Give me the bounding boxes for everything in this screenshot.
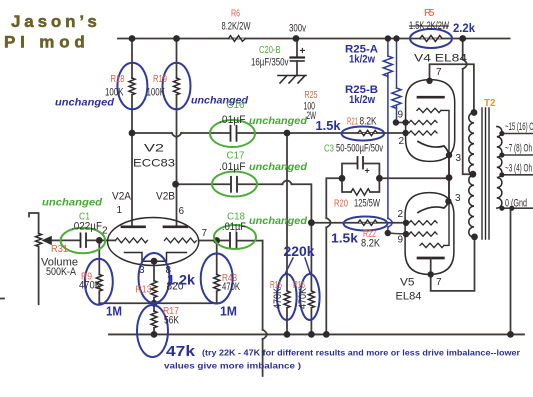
node C3-R20 right [376, 175, 383, 182]
V4 g2 screen grid [409, 120, 437, 124]
svg-text:~7 (8) Oh: ~7 (8) Oh [505, 143, 532, 155]
node 300v [293, 35, 300, 42]
resistor R43 470K->1M [216, 241, 218, 275]
junction rail-primary-feed [459, 35, 466, 42]
svg-text:unchanged: unchanged [55, 98, 115, 109]
V2B cathode [154, 253, 187, 262]
svg-text:R18: R18 [111, 73, 125, 85]
svg-text:V2A: V2A [112, 191, 132, 203]
wire cathodes to R13 [153, 261, 155, 281]
wire V4 cathode out [448, 155, 450, 178]
junction rail-R25B [393, 35, 399, 41]
wire C16 row [132, 132, 172, 134]
junction R16-ground-bus [308, 331, 315, 338]
resistor R18 100K [129, 78, 135, 95]
wiper arrow [50, 239, 80, 241]
svg-text:3: 3 [139, 265, 145, 276]
resistor R9 470K->1M [98, 240, 100, 274]
svg-text:300v: 300v [289, 23, 306, 35]
svg-text:9: 9 [398, 110, 404, 121]
svg-text:1M: 1M [106, 305, 122, 319]
resistor R21 8.2K (1.5k) [358, 130, 377, 135]
junction V2A-plate-C16 [129, 130, 136, 137]
svg-text:500K-A: 500K-A [46, 266, 77, 278]
svg-text:V5: V5 [400, 277, 415, 289]
V2B grid [165, 238, 197, 243]
node tap 7 ohm [499, 152, 504, 157]
svg-text:1.5k: 1.5k [331, 232, 358, 246]
svg-text:1: 1 [117, 205, 123, 216]
V2A plate [122, 225, 145, 228]
svg-text:.01µF: .01µF [219, 114, 246, 126]
highlight ellipse R5 [410, 29, 452, 48]
capacitor C20-B 16uF/350v [296, 39, 298, 57]
node R25A-end [385, 230, 391, 236]
wire second column x=176.5 (rail to V2B plate) [176, 39, 178, 79]
svg-text:EL84: EL84 [396, 291, 422, 303]
junction V2B-plate-C17 [172, 181, 179, 188]
svg-text:50-500µF/50v: 50-500µF/50v [336, 143, 383, 155]
svg-text:C16: C16 [227, 99, 245, 111]
svg-text:+: + [365, 166, 370, 176]
wire left column x=132 (rail to V2A plate) [131, 39, 133, 79]
resistor R22 8.2K (1.5k) [358, 220, 377, 225]
resistor R13 820 (1.2k) [151, 281, 157, 298]
svg-text:470K: 470K [79, 280, 102, 292]
V4 g3 grid [417, 108, 441, 112]
node T2 primary bottom [471, 234, 478, 241]
highlight ellipse R16 [300, 274, 320, 320]
svg-text:unchanged: unchanged [249, 162, 308, 173]
svg-text:2: 2 [102, 226, 108, 237]
resistor R16 470K->220k [308, 291, 314, 308]
highlight ellipse C17 [212, 172, 257, 197]
svg-text:0 (Gnd: 0 (Gnd [505, 198, 527, 210]
junction rail-R25A [385, 35, 391, 41]
wire V5 plate to T2 primary bottom [431, 237, 475, 291]
wire box right node to cathode line [379, 177, 449, 179]
node dots [96, 35, 514, 338]
wire R22 row to V5 g1 [311, 222, 406, 224]
svg-text:R31: R31 [51, 243, 68, 255]
node tap 0 gnd [499, 206, 504, 211]
highlight ellipse R43 [201, 254, 233, 304]
highlight ellipse R13 [139, 253, 170, 303]
V5 plate [418, 257, 443, 260]
svg-text:unchanged: unchanged [42, 198, 103, 209]
svg-text:R25: R25 [305, 89, 318, 101]
junction gnd-tap-ground-bus [507, 331, 514, 338]
wire cathode junction to V5 [448, 178, 450, 202]
svg-text:V2B: V2B [156, 191, 175, 203]
svg-text:V2: V2 [144, 143, 164, 155]
ground (C20-B) [278, 76, 306, 84]
svg-text:470K: 470K [297, 287, 309, 309]
junction R13-R17-1M [151, 300, 158, 307]
junction C3-drop-ground-bus [323, 331, 330, 338]
svg-text:7: 7 [436, 277, 442, 288]
node C3-R20 left [339, 175, 346, 182]
svg-text:125/5W: 125/5W [354, 198, 380, 210]
svg-text:1M: 1M [220, 305, 237, 319]
volume pot R31 500K-A [29, 213, 39, 234]
svg-text:values give more imbalance ): values give more imbalance ) [164, 361, 301, 371]
wire x=287 column down to R15 [286, 133, 288, 290]
svg-text:8.2K: 8.2K [361, 238, 381, 250]
svg-text:unchanged: unchanged [249, 116, 308, 127]
highlight ellipse R15 [277, 274, 297, 320]
junction rail-R19 [173, 35, 180, 42]
highlight ellipse R22 [344, 217, 388, 231]
highlight ellipse C16 [210, 120, 255, 147]
svg-text:V4 EL84: V4 EL84 [414, 53, 467, 65]
svg-text:16µF/350v: 16µF/350v [251, 57, 289, 69]
V2B plate [164, 225, 187, 228]
tube V4 envelope [406, 80, 455, 162]
pin 3 V5 envelope [445, 198, 451, 204]
svg-text:47k: 47k [166, 343, 196, 360]
svg-text:3: 3 [455, 193, 461, 204]
svg-text:C20-B: C20-B [259, 44, 281, 56]
junction R15-ground-bus [284, 331, 291, 338]
pin 2 V4 envelope [402, 130, 408, 136]
svg-text:6: 6 [179, 206, 185, 217]
svg-text:PI mod: PI mod [4, 33, 87, 52]
pin 2 V5 envelope [403, 220, 409, 226]
svg-text:56K: 56K [164, 315, 180, 327]
svg-text:1k/2w: 1k/2w [349, 94, 375, 106]
svg-text:ECC83: ECC83 [133, 158, 175, 170]
svg-text:T2: T2 [484, 97, 496, 109]
junction C16-R15 [284, 130, 291, 137]
wire hop (over x=287) [282, 181, 292, 185]
svg-text:2: 2 [398, 209, 404, 220]
svg-text:1k/2w: 1k/2w [349, 54, 375, 66]
V2A grid [115, 238, 147, 243]
wire 1M bus [99, 302, 216, 304]
highlight ellipse R21 [342, 127, 385, 141]
V4 g1 grid [409, 131, 437, 135]
wire secondary tap 0 gnd [502, 207, 533, 209]
capacitor C18 .01uF [229, 233, 231, 248]
pin 3 V4 envelope [446, 152, 452, 158]
resistor R19 100K [174, 78, 180, 95]
highlight ellipse R18 [117, 63, 147, 110]
resistor R5 (in rail, 1.5K->2.2k) [420, 36, 442, 42]
svg-text:unchanged: unchanged [249, 216, 308, 227]
title Jason's PI mod [4, 12, 99, 52]
wire C1 to V2A grid [87, 239, 115, 241]
V4 plate [418, 96, 443, 99]
capacitor C16 .01uF [230, 126, 232, 141]
junction C17-R16-R22 [308, 219, 315, 226]
wire box left node down to ground bus (hop over R22 wire) [326, 178, 342, 218]
node T2 primary top [471, 109, 478, 116]
svg-text:R13: R13 [136, 284, 152, 296]
resistor R25-B 1k/2w (blue) [396, 39, 398, 89]
svg-text:3: 3 [456, 153, 462, 164]
svg-text:R6: R6 [231, 8, 240, 20]
svg-text:8.2K/2W: 8.2K/2W [222, 21, 251, 33]
V5 g3 grid [420, 243, 444, 247]
highlight ellipse C1 [61, 228, 106, 253]
svg-text:.022µF: .022µF [71, 221, 102, 233]
V5 cathode [418, 201, 448, 212]
pin 9 V4 envelope [402, 119, 408, 125]
resistor R20 125/5W [351, 189, 370, 195]
wire hop (dip under x=176.5) [172, 133, 182, 137]
junction C1-R9-grid [96, 237, 103, 244]
pin 7 V5 envelope [428, 271, 434, 277]
capacitor C1 .022uF [80, 233, 82, 247]
svg-text:9: 9 [398, 235, 404, 246]
svg-text:(try 22K - 47K for different r: (try 22K - 47K for different results and… [202, 348, 521, 358]
wire C16 node to R21 and V4 g1 [287, 132, 406, 134]
resistor R25-A 1k/2w (blue) [387, 39, 389, 57]
node tap 3 ohm [499, 172, 504, 177]
svg-text:C17: C17 [227, 150, 245, 162]
junction grid-R43-C18 [213, 237, 220, 244]
svg-text:R19: R19 [153, 73, 167, 85]
wire secondary tap 3 ohm [502, 174, 533, 176]
junction cathode-bias [446, 174, 453, 181]
svg-text:1.5k: 1.5k [316, 119, 341, 133]
svg-text:8.2K: 8.2K [360, 116, 377, 128]
svg-text:Jason’s: Jason’s [11, 12, 99, 31]
resistor R17 56K (47k) [151, 311, 157, 328]
junction rail-R18 [129, 35, 136, 42]
highlight ellipse R17 [137, 305, 168, 357]
node R25B-end [393, 119, 399, 125]
highlight ellipse R9 [85, 259, 113, 305]
V4 cathode [418, 142, 449, 156]
V5 g2 screen grid [409, 232, 437, 236]
svg-text:.01µF: .01µF [222, 221, 246, 233]
svg-text:2: 2 [399, 136, 405, 147]
wire secondary tap 7 ohm [502, 154, 533, 156]
node tap 15 ohm [499, 131, 504, 136]
resistor R6 8.2K/2W (in rail) [229, 36, 246, 42]
V5 g1 grid [409, 221, 437, 225]
highlight ellipse C18 [214, 225, 256, 249]
wire hop (blue line over R22 wire) [388, 218, 392, 227]
wire secondary tap 15 ohm [502, 133, 533, 135]
wire x=311 down to R16 [310, 223, 312, 290]
pin 7 V4 envelope [426, 78, 432, 84]
wire input stub at left edge [0, 298, 4, 300]
transformer T2 secondary winding [497, 127, 502, 209]
wire V2B grid to C18 [199, 240, 229, 242]
wire gnd tap to ground bus [510, 208, 512, 334]
resistor R15 470K->220k [284, 291, 290, 308]
svg-text:.01µF: .01µF [219, 161, 246, 173]
junction gnd-tap-wire [509, 206, 514, 211]
wire C18 feedback drop [262, 241, 264, 330]
svg-text:470K: 470K [272, 287, 284, 309]
capacitor C3 50-500uF/50v + resistor R20 box [342, 164, 379, 179]
tube V2 envelope [108, 218, 199, 266]
svg-text:~3 (4) Oh: ~3 (4) Oh [505, 163, 532, 175]
V2A cathode [125, 253, 155, 262]
svg-text:7: 7 [202, 228, 208, 239]
tube V5 envelope [405, 193, 454, 275]
highlight ellipse R19 [163, 63, 191, 110]
svg-text:220k: 220k [284, 244, 315, 259]
junction V2-cathodes [151, 258, 158, 265]
wire B+ rail [118, 38, 510, 40]
junction R17-ground-bus [151, 331, 158, 338]
svg-text:+: + [300, 46, 306, 57]
svg-text:100K: 100K [147, 87, 166, 99]
transformer T2 primary winding [469, 113, 474, 238]
wire C17 row [176, 183, 230, 185]
pin 9 V5 envelope [403, 231, 409, 237]
svg-text:C3: C3 [324, 143, 334, 155]
wire B+ down to T2 center tap (hop over plate wire) [462, 39, 464, 60]
svg-text:470K: 470K [222, 281, 240, 293]
node T2 primary center-tap [470, 171, 477, 178]
transformer T2 core [482, 108, 489, 239]
svg-text:1.5K 2K/2W: 1.5K 2K/2W [409, 20, 449, 32]
wire V4 plate node to T2 primary top [430, 64, 474, 112]
svg-text:2.2k: 2.2k [453, 21, 475, 35]
svg-text:~15 (16) O: ~15 (16) O [505, 121, 533, 133]
svg-text:R20: R20 [334, 198, 348, 210]
svg-text:7: 7 [436, 67, 442, 78]
capacitor C17 .01uF [230, 177, 232, 192]
ground bus [109, 333, 524, 335]
svg-text:R21: R21 [347, 116, 358, 128]
pointer lines 220k [286, 258, 294, 273]
svg-text:R5: R5 [424, 7, 435, 19]
wire cathode column V4/V5 [448, 155, 450, 201]
svg-text:1.2k: 1.2k [167, 273, 196, 288]
